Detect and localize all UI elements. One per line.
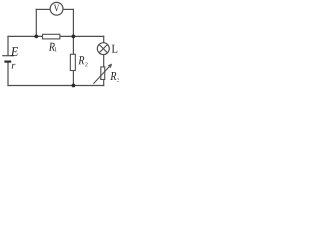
battery E short thick negative plate [4, 60, 11, 62]
node C junction dot at R2 bottom [72, 84, 76, 88]
voltmeter V1 circle [50, 2, 63, 15]
resistor R1 box [43, 34, 60, 39]
wire: top wire, R1 right to lamp corner [61, 35, 104, 37]
lamp L cross [99, 45, 107, 53]
wire: left branch, top corner down to battery + plate [7, 36, 9, 55]
wire: voltmeter branch left vertical [35, 9, 37, 36]
wire: rheostat bottom to bottom wire [103, 80, 105, 86]
wire: lamp bottom to rheostat top [103, 55, 105, 67]
wire: R2 branch, node B down to R2 top [72, 36, 74, 54]
label R2: letter R [78, 56, 84, 64]
wire: voltmeter branch right vertical [72, 9, 74, 36]
wire: top wire, battery corner to R1 left [8, 35, 43, 37]
label r [12, 64, 16, 69]
label R1: subscript 1 [55, 47, 57, 51]
battery E long positive plate [2, 55, 14, 57]
wire: lamp branch, top corner down to lamp [103, 36, 105, 42]
wire: R2 bottom down to bottom wire [72, 71, 74, 86]
node B junction dot [72, 35, 76, 39]
label E [11, 47, 18, 55]
label R2: subscript 2 [85, 62, 87, 66]
lamp L circle [97, 43, 109, 55]
rheostat R3 arrowhead [108, 65, 111, 68]
wire: voltmeter branch right horizontal [63, 8, 73, 10]
label R3: subscript 3 [117, 78, 119, 82]
label L [112, 45, 118, 53]
wire: voltmeter branch left horizontal [36, 8, 50, 10]
wire: bottom wire [8, 85, 104, 87]
label R3: letter R [110, 72, 116, 80]
label R1: letter R [49, 43, 55, 51]
rheostat R3 arrow shaft [93, 65, 111, 84]
wire: left branch, battery - plate to bottom corner [7, 63, 9, 86]
node A junction dot [34, 35, 38, 39]
rheostat R3 box [101, 67, 105, 80]
resistor R2 box [70, 54, 75, 70]
voltmeter V1 letter V [54, 5, 59, 12]
